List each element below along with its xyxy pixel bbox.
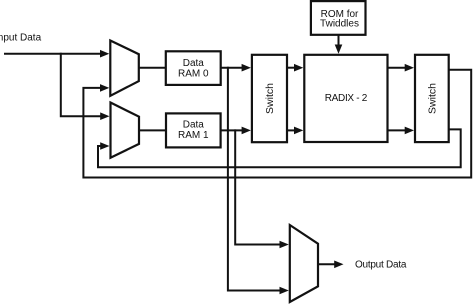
wire ROM down to RADIX-2: [338, 35, 340, 46]
svg-text:Output Data: Output Data: [355, 260, 407, 271]
box switch U4: [415, 55, 449, 142]
wire branch from Data RAM 0 output down to mux M3 lower input: [228, 68, 281, 291]
wire Data RAM 1 output to switch U2 row 2: [221, 129, 242, 131]
wire input branch down to mux M2 top input: [61, 54, 101, 116]
arrowhead into mux M2 top input: [100, 112, 109, 120]
arrowhead into RADIX-2 row 1: [294, 64, 303, 72]
wire switch U2 to RADIX-2 row 2: [287, 129, 295, 131]
svg-text:Input Data: Input Data: [0, 33, 42, 44]
arrowhead into switch U4 row 1: [405, 64, 414, 72]
svg-text:Data: Data: [183, 58, 205, 69]
box RADIX-2 U3: [304, 55, 387, 142]
wire RADIX-2 to switch U4 row 1: [388, 67, 406, 69]
arrowhead into mux M1 top input: [100, 50, 109, 58]
arrowhead into mux M2 lower input: [100, 142, 109, 150]
svg-text:Switch: Switch: [427, 83, 439, 114]
arrowhead into mux M1 lower input: [100, 84, 109, 92]
arrowhead into RADIX-2 row 2: [294, 127, 303, 135]
arrowhead into switch U2 row 1: [242, 64, 251, 72]
mux M2 input multiplexer bottom: [111, 103, 140, 158]
wire switch U2 to RADIX-2 row 1: [287, 67, 295, 69]
mux M3 output multiplexer: [290, 225, 318, 302]
wire feedback from switch U4 top output around to mux M1 lower input: [83, 70, 471, 178]
wire RADIX-2 to switch U4 row 2: [388, 129, 406, 131]
arrowhead into mux M3 lower input: [280, 287, 289, 295]
mux M1 input multiplexer top: [110, 41, 139, 96]
wire mux M1 output to Data RAM 0: [139, 67, 166, 69]
svg-text:RADIX - 2: RADIX - 2: [325, 93, 368, 104]
arrowhead from ROM into RADIX-2 top: [335, 45, 343, 54]
arrowhead into switch U4 row 2: [405, 127, 414, 135]
wire mux M2 output to Data RAM 1: [139, 129, 166, 131]
svg-text:Data: Data: [183, 119, 205, 130]
box Data RAM 1: [166, 113, 221, 147]
wire branch from Data RAM 1 output down to mux M3 upper input: [235, 130, 280, 244]
arrowhead of Output Data line: [334, 261, 343, 269]
svg-text:Switch: Switch: [264, 83, 276, 114]
svg-text:RAM 1: RAM 1: [178, 130, 209, 141]
wire Data RAM 0 output to switch U2 row 1: [221, 67, 242, 69]
wire mux M3 output to Output Data: [318, 263, 335, 265]
box Data RAM 0: [166, 51, 221, 85]
wire input data line: [5, 53, 101, 55]
svg-text:Twiddles: Twiddles: [320, 19, 359, 30]
box ROM for Twiddles: [311, 1, 366, 35]
svg-text:RAM 0: RAM 0: [178, 69, 209, 80]
arrowhead into switch U2 row 2: [242, 127, 251, 135]
box switch U2: [252, 55, 287, 142]
arrowhead into mux M3 upper input: [280, 241, 289, 249]
wire feedback from switch U4 bottom output around to mux M2 lower input: [98, 129, 461, 167]
